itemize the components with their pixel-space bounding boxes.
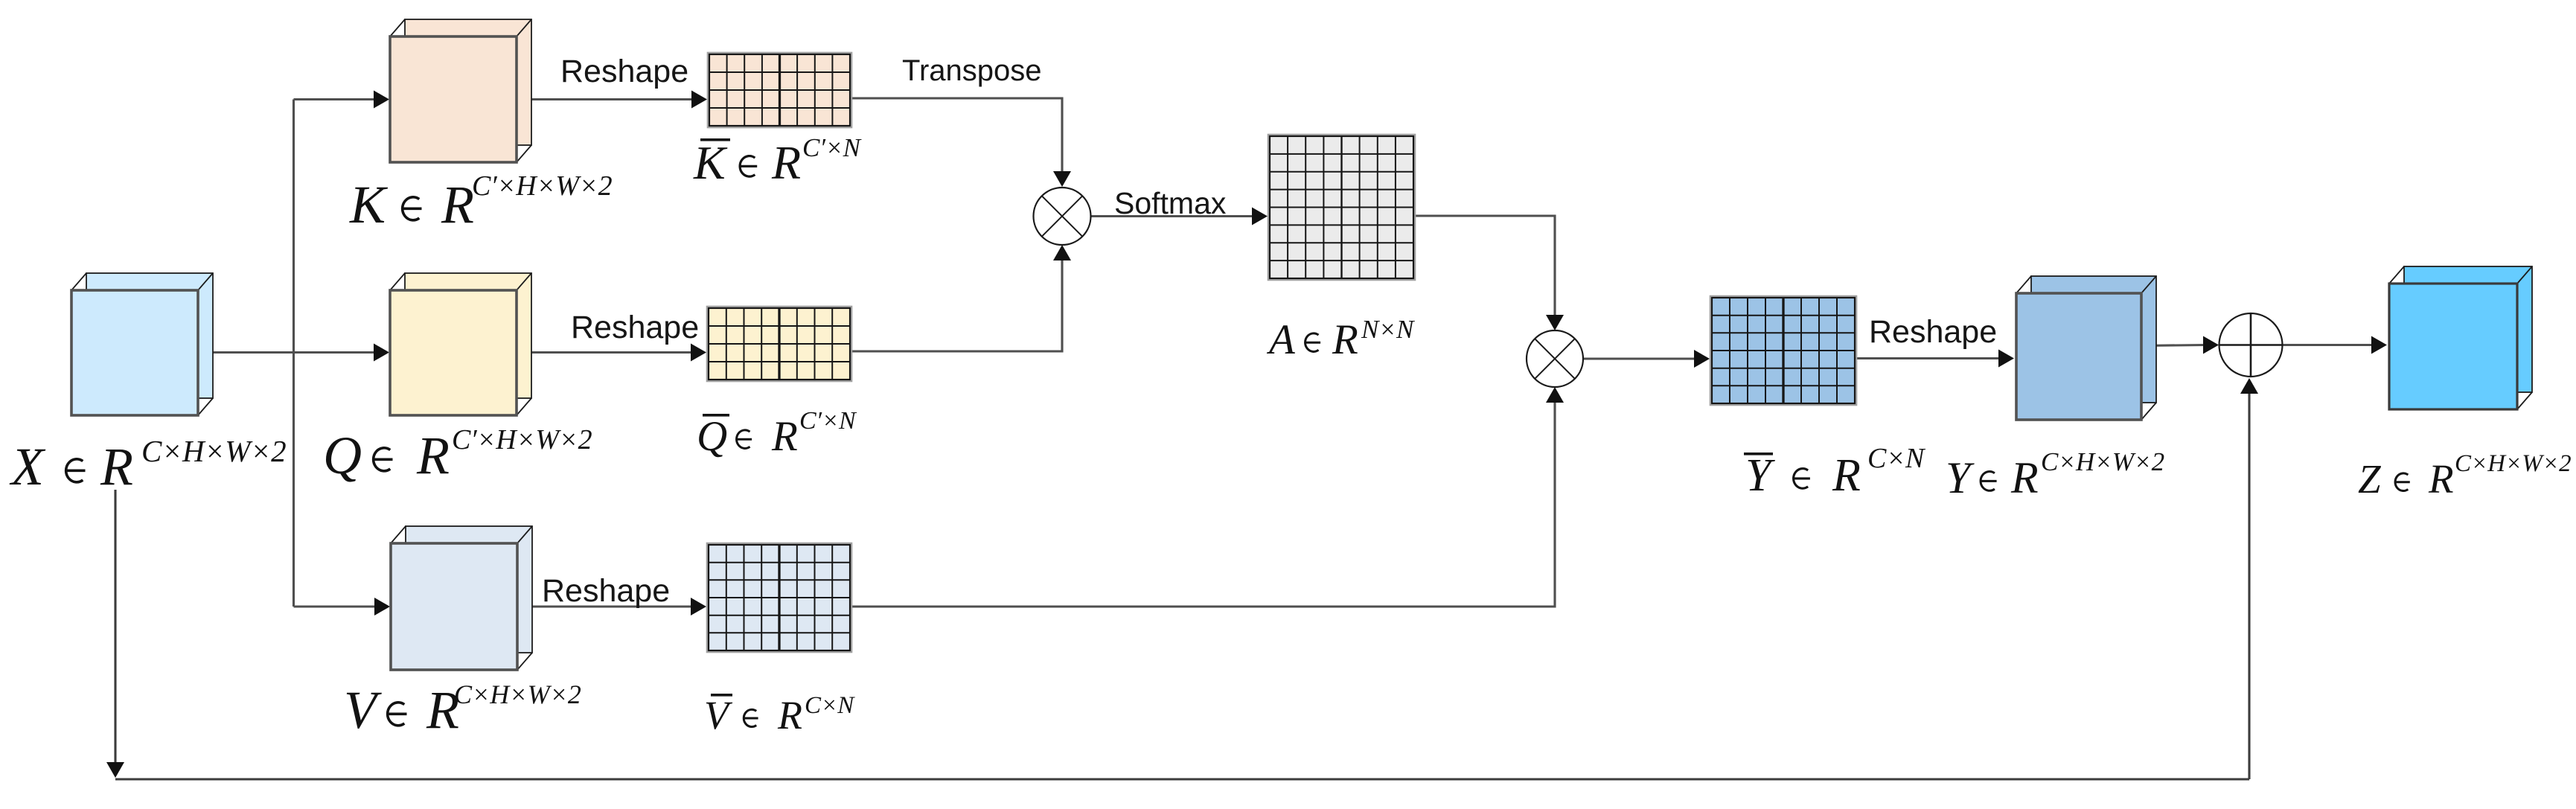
matrix A xyxy=(1268,135,1415,280)
svg-text:R: R xyxy=(1332,316,1358,363)
label Q formula xyxy=(323,424,592,485)
label A formula xyxy=(1266,315,1415,363)
label Reshape Ybar xyxy=(1869,314,1997,350)
wire Vbar to otimes2 xyxy=(850,387,1564,607)
svg-text:K: K xyxy=(349,175,389,234)
svg-text:C×H×W×2: C×H×W×2 xyxy=(2041,447,2164,476)
wire bottom up to oplus xyxy=(2240,378,2258,779)
svg-text:A: A xyxy=(1266,316,1296,363)
tensor V xyxy=(391,526,532,670)
svg-text:Reshape: Reshape xyxy=(571,310,699,345)
svg-text:N×N: N×N xyxy=(1361,315,1415,344)
svg-text:C′×H×W×2: C′×H×W×2 xyxy=(472,170,613,202)
wire otimes2 to Ybar xyxy=(1583,350,1710,368)
wire V to Vbar (Reshape) xyxy=(517,598,706,615)
label Kbar formula xyxy=(693,133,862,189)
wire Y to oplus xyxy=(2141,336,2219,354)
svg-text:Y: Y xyxy=(1745,450,1775,501)
svg-text:C×H×W×2: C×H×W×2 xyxy=(454,680,581,709)
svg-text:V: V xyxy=(344,680,382,740)
svg-text:Reshape: Reshape xyxy=(560,54,688,89)
label Transpose xyxy=(902,54,1042,87)
svg-text:C′×H×W×2: C′×H×W×2 xyxy=(452,424,592,455)
svg-text:Q: Q xyxy=(323,426,362,485)
wire Kbar to otimes1 (Transpose) xyxy=(850,98,1071,187)
tensor X xyxy=(71,273,213,415)
wire trunk vertical xyxy=(293,100,295,607)
wire Q to Qbar (Reshape) xyxy=(517,344,706,362)
matrix Kbar xyxy=(708,53,851,127)
svg-text:C′×N: C′×N xyxy=(799,407,857,435)
svg-text:R: R xyxy=(771,136,801,189)
wire oplus to Z xyxy=(2283,336,2388,354)
label Vbar formula xyxy=(704,692,855,738)
wire X to Q xyxy=(198,344,389,362)
label Qbar formula xyxy=(697,407,857,460)
svg-text:C×H×W×2: C×H×W×2 xyxy=(2455,450,2572,477)
matrix Qbar xyxy=(707,307,851,381)
wire Ybar to Y (Reshape) xyxy=(1855,350,2014,368)
wire X label down xyxy=(106,490,124,778)
label Reshape Q xyxy=(571,310,699,345)
svg-text:Reshape: Reshape xyxy=(542,573,670,609)
svg-text:Q: Q xyxy=(697,413,727,460)
matrix Ybar xyxy=(1710,296,1856,405)
svg-text:Z: Z xyxy=(2358,456,2382,502)
multiply node 1 xyxy=(1034,188,1091,245)
svg-text:R: R xyxy=(416,426,450,485)
label V formula xyxy=(344,680,581,740)
label K formula xyxy=(349,170,613,234)
wire trunk to K xyxy=(294,91,390,109)
wire Qbar to otimes1 xyxy=(850,245,1071,351)
svg-text:R: R xyxy=(771,413,798,460)
multiply node 2 xyxy=(1527,330,1583,387)
svg-text:K: K xyxy=(693,136,728,189)
svg-text:C×H×W×2: C×H×W×2 xyxy=(141,434,287,468)
svg-text:C′×N: C′×N xyxy=(802,133,862,162)
wire otimes1 to A (Softmax) xyxy=(1091,208,1268,226)
label Reshape K xyxy=(560,54,688,89)
wire A to otimes2 xyxy=(1413,216,1564,330)
wire K to Kbar (Reshape) xyxy=(517,91,707,109)
svg-text:Reshape: Reshape xyxy=(1869,314,1997,350)
svg-text:Softmax: Softmax xyxy=(1114,186,1227,220)
svg-text:C×N: C×N xyxy=(805,692,855,719)
svg-text:R: R xyxy=(441,175,474,234)
svg-text:R: R xyxy=(1832,450,1861,501)
wire bottom long xyxy=(115,778,2249,780)
svg-text:Transpose: Transpose xyxy=(902,54,1042,87)
tensor K xyxy=(390,19,531,162)
tensor Y xyxy=(2016,276,2156,420)
add node xyxy=(2219,313,2283,377)
svg-text:R: R xyxy=(777,693,802,738)
label Ybar formula xyxy=(1744,443,1926,501)
wire trunk to V xyxy=(294,598,391,615)
svg-text:R: R xyxy=(2010,453,2039,502)
svg-text:C×N: C×N xyxy=(1867,443,1926,474)
svg-text:X: X xyxy=(9,437,46,496)
tensor Z xyxy=(2389,266,2532,409)
svg-text:R: R xyxy=(2428,456,2454,502)
tensor Q xyxy=(390,273,531,415)
label Reshape V xyxy=(542,573,670,609)
label Z formula xyxy=(2358,450,2572,502)
label X formula xyxy=(9,434,287,496)
matrix Vbar xyxy=(707,543,851,652)
label Y formula xyxy=(1946,447,2164,502)
svg-text:Y: Y xyxy=(1946,453,1975,502)
svg-text:R: R xyxy=(100,437,133,496)
label Softmax xyxy=(1114,186,1227,220)
